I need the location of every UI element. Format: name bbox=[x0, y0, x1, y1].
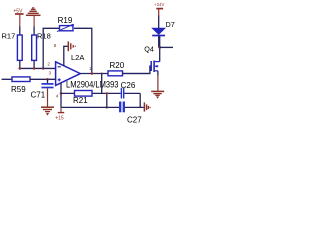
wire mid leg bbox=[106, 93, 108, 107]
node dot R18 bbox=[33, 67, 36, 70]
svg-text:8: 8 bbox=[54, 43, 57, 48]
wire drop to rail1 bbox=[101, 74, 103, 94]
node dot V- rail1 bbox=[60, 92, 63, 95]
wire R20 to gate bbox=[123, 66, 152, 73]
wire R19 right leg to output bbox=[74, 28, 92, 73]
capacitor C71 bbox=[47, 79, 49, 83]
wire port to R18 bbox=[33, 27, 35, 36]
wire rail1 with R21 and C26 bbox=[61, 92, 121, 94]
resistor R17 bbox=[17, 35, 22, 60]
wire +5V to R17 bbox=[19, 27, 21, 36]
svg-text:C27: C27 bbox=[127, 115, 142, 124]
node dot R17 bbox=[19, 67, 22, 70]
wire Q4 drain up bbox=[159, 36, 161, 62]
wire C71 to ground bbox=[47, 88, 49, 107]
svg-text:LM2904/LM393: LM2904/LM393 bbox=[66, 80, 119, 90]
resistor R18 bbox=[32, 35, 37, 60]
op-amp V- wire down bbox=[60, 83, 62, 108]
node dot feedback bbox=[91, 72, 94, 75]
wire input left bbox=[2, 78, 12, 80]
wire right leg bbox=[139, 93, 141, 107]
wire D7 cathode down bbox=[158, 36, 160, 48]
svg-text:L2A: L2A bbox=[71, 53, 84, 62]
wire Q4 source down bbox=[157, 71, 159, 76]
node dot C26 drop bbox=[101, 73, 103, 75]
capacitor C27 bbox=[119, 102, 121, 113]
op-amp V+ wire bbox=[64, 46, 68, 66]
power +5V port bbox=[13, 8, 23, 27]
wire rail2 with C27 bbox=[61, 106, 119, 108]
svg-text:3: 3 bbox=[49, 70, 52, 75]
wire R17 bottom bbox=[19, 60, 21, 68]
svg-text:4: 4 bbox=[56, 94, 59, 99]
ground below C71 bbox=[41, 107, 54, 115]
svg-text:R21: R21 bbox=[73, 96, 88, 105]
svg-text:R19: R19 bbox=[58, 16, 73, 25]
svg-text:2: 2 bbox=[47, 61, 50, 66]
svg-text:1: 1 bbox=[89, 66, 92, 71]
node dot drain tap bbox=[158, 46, 161, 49]
op-amp L2A triangle bbox=[56, 62, 81, 86]
svg-text:R17: R17 bbox=[2, 31, 16, 40]
resistor R21 bbox=[75, 91, 93, 97]
ground below Q4 bbox=[151, 91, 164, 98]
wire R18 bottom bbox=[33, 60, 35, 68]
svg-text:R20: R20 bbox=[110, 61, 125, 70]
svg-text:D7: D7 bbox=[166, 20, 175, 29]
wire inverting input net bbox=[20, 67, 56, 69]
wire D7 anode up bbox=[158, 16, 160, 29]
wire drain tap right bbox=[160, 46, 173, 48]
wire R59 to op-amp plus input bbox=[30, 78, 56, 80]
V+ earth-style power symbol bbox=[68, 41, 75, 51]
svg-text:+24V: +24V bbox=[154, 2, 164, 7]
wire R19 left leg bbox=[43, 28, 59, 68]
svg-text:R59: R59 bbox=[11, 85, 26, 94]
ground sideways right bbox=[144, 102, 150, 111]
op-amp output wire bbox=[80, 73, 150, 75]
node dot C71 bbox=[46, 78, 49, 81]
svg-text:R18: R18 bbox=[37, 31, 51, 40]
power port below V- corner bbox=[55, 107, 64, 121]
svg-text:C71: C71 bbox=[31, 91, 46, 100]
svg-text:C26: C26 bbox=[121, 81, 136, 90]
node dot R19 leg bbox=[42, 67, 45, 70]
svg-text:+15: +15 bbox=[55, 116, 64, 122]
power earth-style port over R18 bbox=[26, 8, 41, 27]
resistor R59 bbox=[12, 77, 30, 82]
svg-text:Q4: Q4 bbox=[144, 45, 154, 54]
